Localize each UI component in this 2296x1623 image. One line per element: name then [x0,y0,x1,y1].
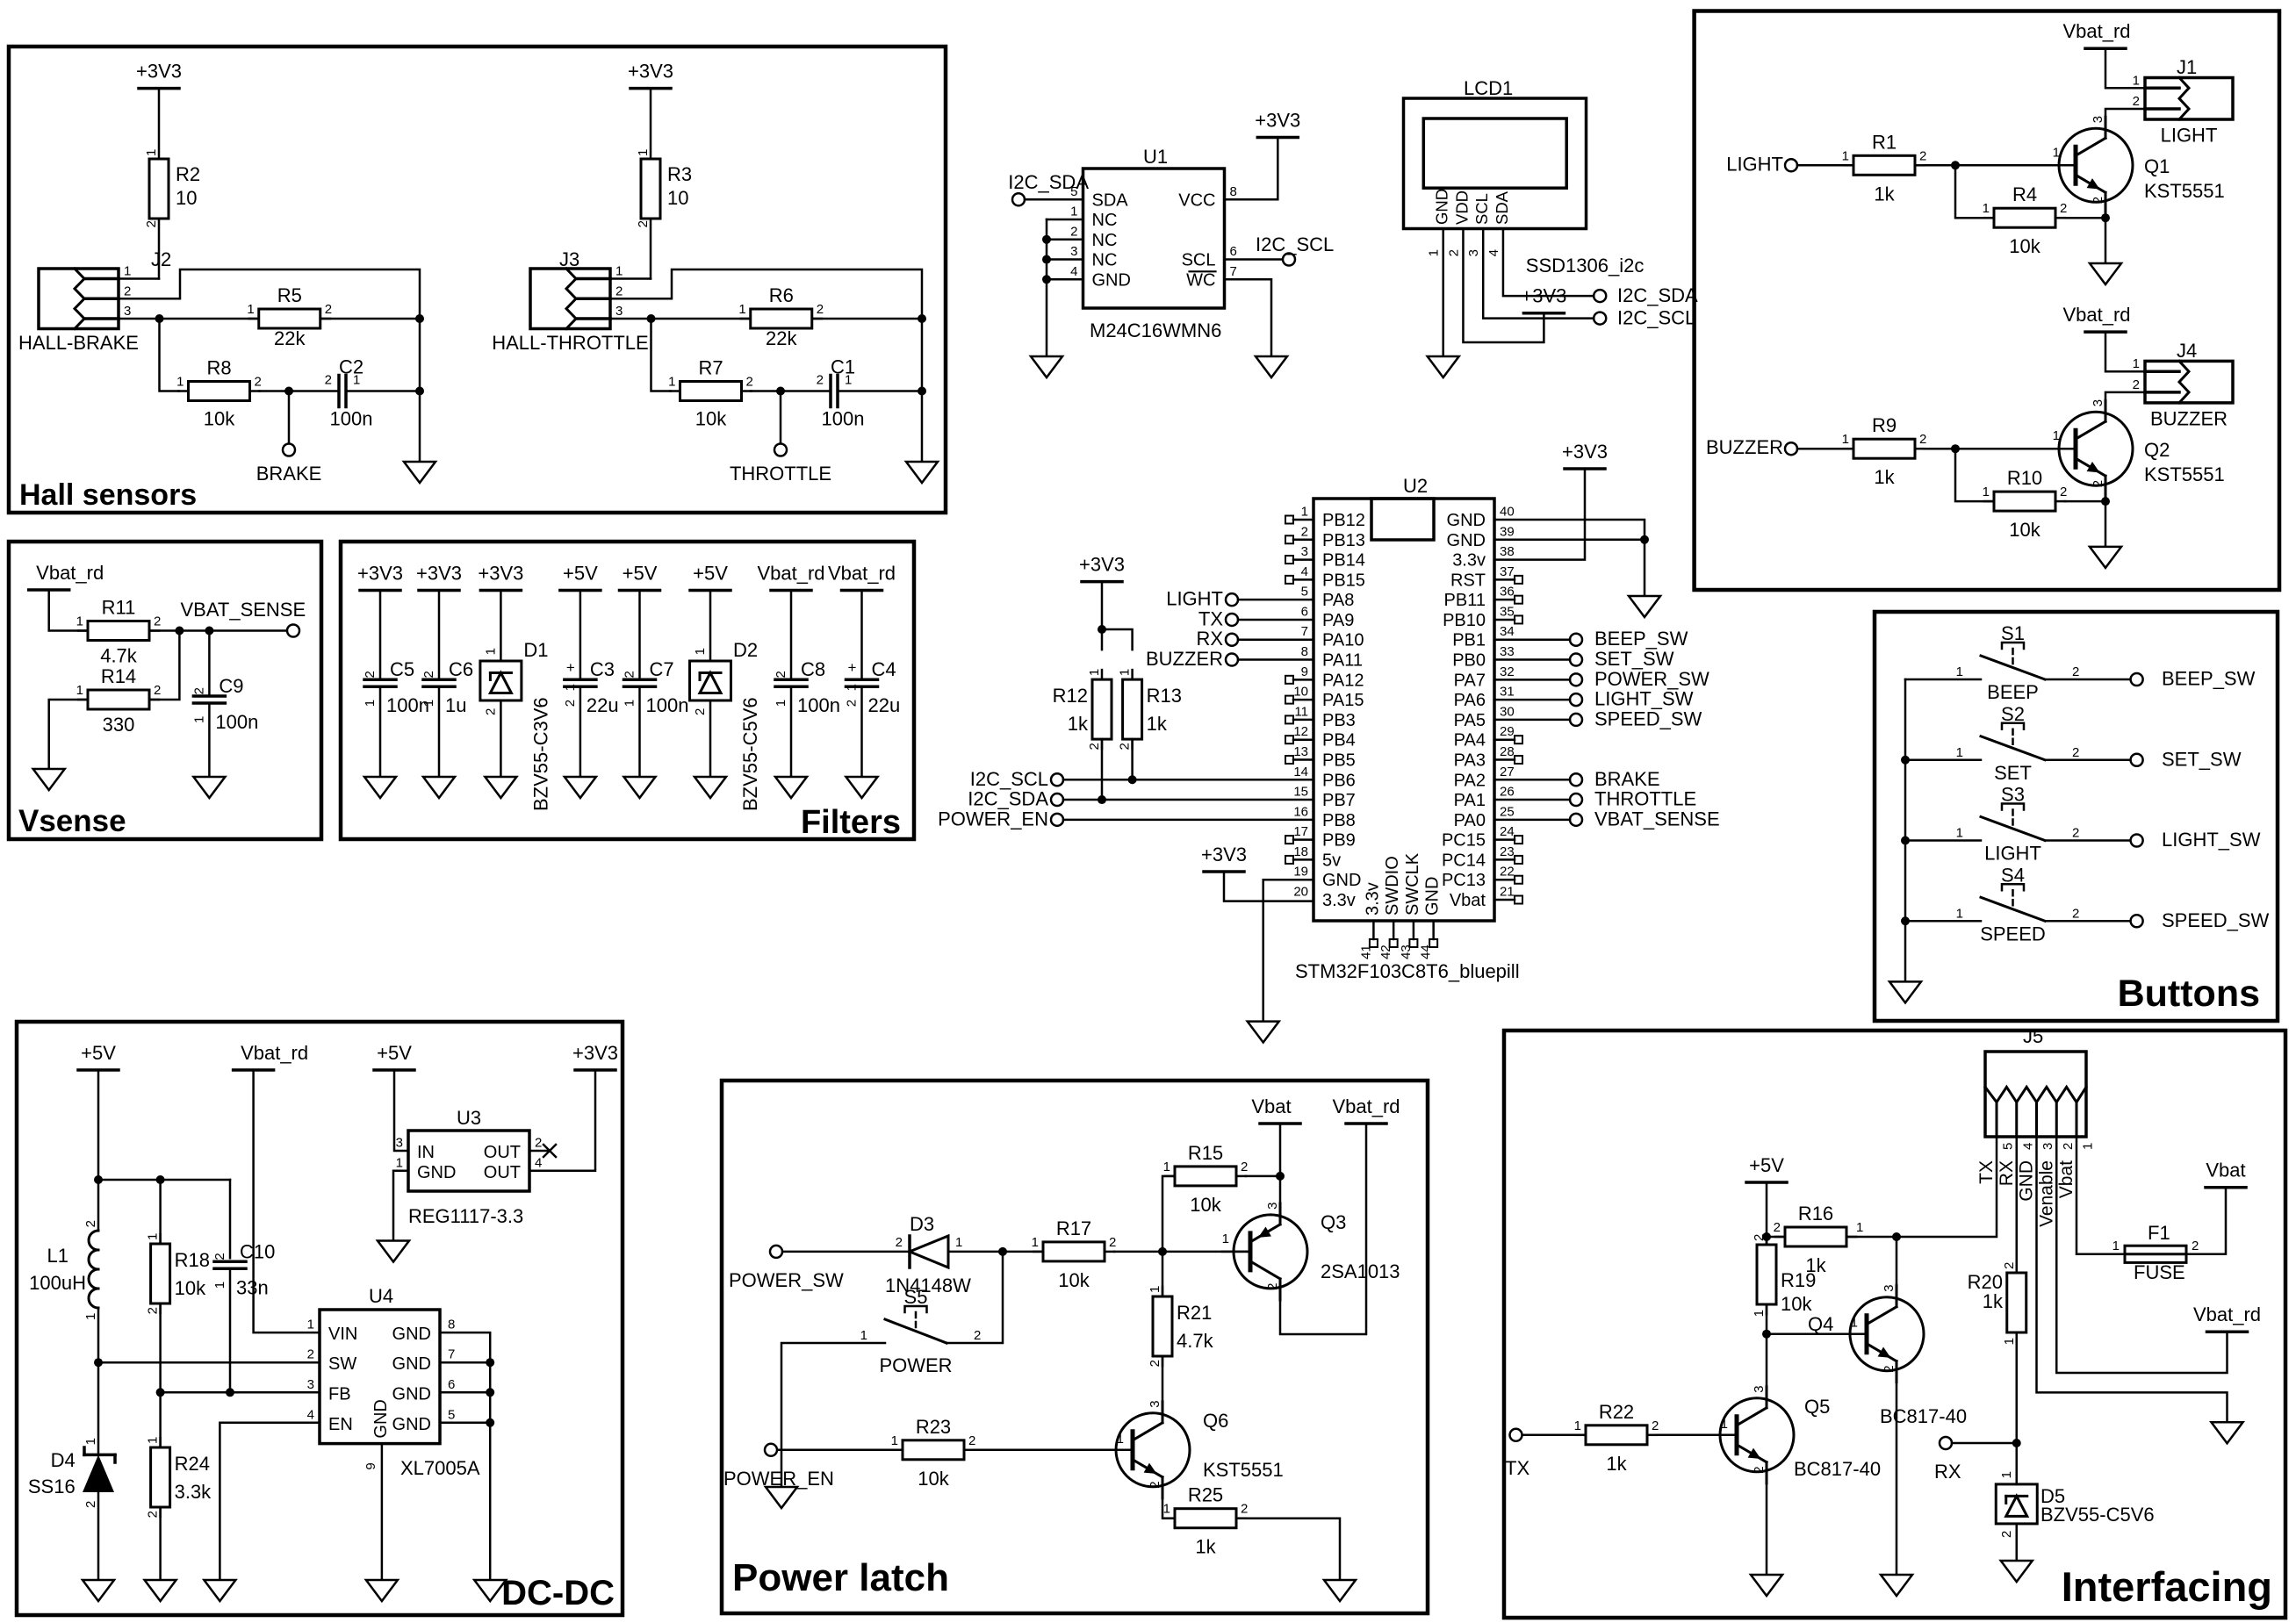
svg-text:PB14: PB14 [1322,551,1365,571]
svg-text:J1: J1 [2177,56,2197,78]
svg-text:SWCLK: SWCLK [1403,852,1422,916]
svg-text:2: 2 [1882,1365,1897,1372]
svg-text:1k: 1k [1068,713,1089,735]
svg-text:10k: 10k [204,408,235,430]
svg-text:3: 3 [2091,399,2105,406]
svg-text:1: 1 [353,373,360,388]
svg-text:1: 1 [738,302,745,317]
svg-text:1k: 1k [1606,1453,1627,1475]
svg-text:POWER_EN: POWER_EN [938,808,1048,829]
svg-text:1: 1 [421,700,436,707]
svg-text:PB7: PB7 [1322,791,1356,810]
svg-text:PA1: PA1 [1454,791,1486,810]
svg-text:VIN: VIN [328,1325,357,1344]
svg-text:41: 41 [1358,944,1373,959]
svg-text:POWER_EN: POWER_EN [723,1468,834,1490]
svg-text:BRAKE: BRAKE [1594,768,1660,790]
svg-text:PA6: PA6 [1454,691,1486,710]
svg-text:100n: 100n [822,408,865,430]
svg-text:R16: R16 [1798,1203,1833,1224]
svg-text:100n: 100n [797,694,840,716]
svg-text:3: 3 [1882,1284,1897,1291]
svg-text:BEEP_SW: BEEP_SW [1594,628,1688,650]
svg-text:3: 3 [124,304,131,319]
svg-text:PC14: PC14 [1442,851,1486,870]
svg-text:J2: J2 [151,248,171,270]
svg-text:+5V: +5V [563,563,598,585]
svg-text:1: 1 [76,683,83,698]
svg-text:PB6: PB6 [1322,771,1356,790]
svg-text:R22: R22 [1599,1401,1634,1423]
svg-text:2: 2 [154,614,161,629]
svg-text:6: 6 [1301,604,1308,619]
svg-text:22k: 22k [274,327,306,349]
svg-text:2: 2 [968,1433,975,1448]
svg-text:35: 35 [1500,604,1515,619]
svg-text:4: 4 [307,1407,314,1422]
svg-text:R1: R1 [1872,131,1897,153]
svg-text:1: 1 [83,1438,98,1445]
svg-text:Vbat_rd: Vbat_rd [36,562,104,584]
svg-text:R5: R5 [277,284,302,306]
svg-text:1: 1 [1117,1432,1124,1447]
svg-text:1: 1 [396,1155,403,1170]
svg-text:SSD1306_i2c: SSD1306_i2c [1526,255,1645,276]
svg-text:C10: C10 [240,1240,275,1262]
svg-text:NC: NC [1092,211,1118,230]
svg-text:3: 3 [396,1136,403,1151]
svg-text:C4: C4 [872,658,896,680]
svg-text:1: 1 [860,1328,867,1343]
svg-text:2: 2 [636,220,651,227]
svg-text:GND: GND [1447,531,1486,550]
svg-text:3: 3 [1301,544,1308,559]
svg-text:D4: D4 [51,1449,76,1471]
svg-text:1: 1 [1842,432,1849,447]
svg-text:3.3v: 3.3v [1452,551,1486,571]
svg-text:POWER: POWER [879,1354,952,1376]
svg-text:C3: C3 [590,658,615,680]
svg-text:FB: FB [328,1384,351,1404]
svg-text:GND: GND [1322,871,1361,890]
svg-text:TX: TX [1976,1160,1997,1184]
svg-text:+3V3: +3V3 [1201,844,1247,865]
svg-text:5: 5 [448,1407,455,1422]
svg-text:SDA: SDA [1493,190,1511,225]
svg-text:7: 7 [1301,624,1308,639]
svg-text:2: 2 [2072,664,2079,679]
svg-text:2: 2 [1070,224,1077,239]
svg-text:2: 2 [2002,1262,2017,1269]
svg-text:100uH: 100uH [29,1272,86,1294]
svg-text:R8: R8 [206,357,231,379]
svg-text:1: 1 [1427,249,1442,256]
svg-text:3: 3 [1265,1203,1280,1210]
svg-text:9: 9 [1301,664,1308,679]
svg-text:R25: R25 [1188,1484,1223,1506]
svg-text:Vbat: Vbat [1450,891,1486,910]
svg-text:23: 23 [1500,844,1515,859]
svg-text:I2C_SDA: I2C_SDA [1008,171,1089,193]
svg-text:+3V3: +3V3 [1562,441,1608,463]
svg-text:PA0: PA0 [1454,811,1486,830]
svg-text:+5V: +5V [81,1042,116,1064]
svg-text:2: 2 [421,671,436,678]
svg-text:GND: GND [417,1163,456,1182]
svg-text:13: 13 [1293,744,1308,759]
svg-text:BEEP_SW: BEEP_SW [2162,668,2256,690]
svg-text:BUZZER: BUZZER [1146,648,1223,670]
svg-text:PB1: PB1 [1452,631,1486,650]
svg-text:SET_SW: SET_SW [2162,748,2242,770]
svg-text:Vbat_rd: Vbat_rd [1332,1095,1400,1117]
svg-text:IN: IN [417,1143,435,1162]
svg-text:2: 2 [817,373,824,388]
svg-text:2: 2 [1919,432,1926,447]
svg-text:+3V3: +3V3 [136,61,182,83]
svg-text:16: 16 [1293,804,1308,819]
svg-text:1: 1 [1163,1502,1170,1517]
svg-text:34: 34 [1500,624,1515,639]
svg-text:43: 43 [1399,944,1414,959]
svg-text:Vbat_rd: Vbat_rd [2062,304,2130,326]
svg-text:2: 2 [2072,826,2079,841]
svg-text:2: 2 [154,683,161,698]
svg-text:2: 2 [1118,743,1133,750]
svg-text:SWDIO: SWDIO [1383,856,1402,916]
svg-text:1: 1 [2002,1338,2017,1345]
svg-text:PC13: PC13 [1442,871,1486,890]
svg-text:2: 2 [325,373,332,388]
svg-text:100n: 100n [215,711,258,733]
svg-text:RX: RX [1934,1461,1961,1483]
svg-text:PB0: PB0 [1452,651,1486,671]
svg-text:+3V3: +3V3 [1079,554,1125,576]
svg-text:S4: S4 [2001,864,2025,886]
svg-text:THROTTLE: THROTTLE [730,463,831,485]
svg-text:3: 3 [615,304,623,319]
svg-text:2: 2 [2192,1239,2199,1253]
svg-text:1: 1 [1851,1316,1858,1331]
svg-text:Filters: Filters [801,804,901,841]
svg-text:U2: U2 [1403,475,1428,497]
svg-text:S5: S5 [904,1286,928,1308]
svg-text:2: 2 [1446,249,1461,256]
svg-text:2SA1013: 2SA1013 [1321,1260,1400,1282]
svg-text:U3: U3 [457,1107,481,1129]
svg-text:2: 2 [1301,524,1308,539]
svg-text:1: 1 [1574,1418,1581,1433]
svg-text:1: 1 [845,373,852,388]
svg-text:NC: NC [1092,231,1118,250]
svg-text:PC15: PC15 [1442,831,1486,851]
svg-text:2: 2 [2061,1143,2076,1150]
svg-text:LIGHT_SW: LIGHT_SW [2162,829,2261,851]
svg-text:2: 2 [896,1235,903,1250]
svg-text:THROTTLE: THROTTLE [1594,788,1696,810]
svg-text:30: 30 [1500,704,1515,719]
svg-text:+: + [566,659,575,676]
svg-text:2: 2 [746,375,753,390]
svg-text:1: 1 [483,648,498,655]
svg-text:PA2: PA2 [1454,771,1486,790]
svg-text:1: 1 [212,1282,227,1289]
svg-text:J5: J5 [2023,1025,2043,1047]
svg-text:NC: NC [1092,251,1118,270]
svg-text:J4: J4 [2177,340,2197,362]
svg-text:BRAKE: BRAKE [256,463,322,485]
svg-text:R9: R9 [1872,414,1897,436]
svg-text:R17: R17 [1056,1217,1091,1239]
svg-text:2: 2 [1752,1466,1767,1473]
svg-text:RX: RX [1997,1160,2017,1186]
svg-text:R3: R3 [667,163,692,185]
svg-text:Buttons: Buttons [2118,973,2260,1015]
svg-text:4: 4 [1301,564,1308,579]
svg-text:1: 1 [2133,73,2140,88]
svg-text:RST: RST [1450,571,1486,590]
svg-text:1: 1 [1956,664,1963,679]
svg-text:10k: 10k [918,1468,949,1490]
svg-text:GND: GND [392,1415,431,1434]
svg-text:2: 2 [483,708,498,715]
svg-text:PA3: PA3 [1454,750,1486,770]
svg-text:GND: GND [1447,511,1486,530]
svg-text:SET_SW: SET_SW [1594,648,1674,670]
svg-text:Venable: Venable [2036,1160,2056,1227]
svg-text:6: 6 [1230,244,1237,259]
svg-text:SPEED_SW: SPEED_SW [1594,707,1702,729]
svg-text:19: 19 [1293,865,1308,880]
svg-text:1: 1 [1856,1220,1863,1235]
svg-text:2: 2 [1148,1481,1162,1488]
svg-text:R23: R23 [916,1416,951,1438]
svg-text:1: 1 [247,302,254,317]
svg-text:+3V3: +3V3 [357,563,403,585]
svg-text:1: 1 [146,1437,161,1444]
svg-text:4: 4 [1070,264,1077,279]
svg-text:10: 10 [667,187,688,209]
svg-text:REG1117-3.3: REG1117-3.3 [408,1205,523,1227]
svg-text:1: 1 [144,149,159,156]
svg-text:R6: R6 [769,284,794,306]
svg-text:9: 9 [363,1462,378,1469]
svg-text:C6: C6 [449,658,473,680]
svg-text:11: 11 [1294,704,1308,719]
svg-text:R7: R7 [698,357,723,379]
svg-text:1: 1 [1721,1417,1728,1432]
svg-text:U4: U4 [369,1285,393,1307]
svg-text:3.3v: 3.3v [1363,882,1382,916]
svg-text:FUSE: FUSE [2134,1261,2185,1283]
svg-text:I2C_SCL: I2C_SCL [970,768,1048,790]
svg-text:4.7k: 4.7k [100,645,138,667]
svg-text:3.3v: 3.3v [1322,891,1356,910]
svg-text:2: 2 [1265,1283,1280,1290]
svg-text:7: 7 [448,1347,455,1362]
svg-text:1: 1 [124,264,131,279]
svg-text:PB4: PB4 [1322,731,1356,750]
svg-text:PA12: PA12 [1322,671,1364,690]
svg-text:10k: 10k [2009,235,2040,257]
svg-text:36: 36 [1500,585,1515,600]
svg-text:R14: R14 [101,665,136,687]
svg-text:2: 2 [1241,1160,1248,1174]
svg-text:R15: R15 [1188,1142,1223,1164]
svg-text:2: 2 [2133,377,2140,392]
svg-text:Vbat: Vbat [2206,1160,2245,1181]
svg-text:1: 1 [1118,669,1133,676]
svg-text:1: 1 [668,375,675,390]
svg-text:10: 10 [176,187,197,209]
svg-text:2: 2 [774,671,788,678]
svg-text:TX: TX [1505,1457,1529,1479]
svg-text:17: 17 [1293,824,1308,839]
svg-text:2: 2 [2072,745,2079,760]
svg-text:HALL-BRAKE: HALL-BRAKE [18,332,139,354]
svg-text:I2C_SCL: I2C_SCL [1617,307,1695,329]
svg-text:2: 2 [2091,480,2105,487]
svg-text:Q3: Q3 [1321,1211,1346,1233]
svg-text:12: 12 [1293,724,1308,739]
svg-text:GND: GND [392,1325,431,1344]
svg-text:PB9: PB9 [1322,831,1356,851]
svg-text:PA10: PA10 [1322,631,1364,650]
svg-text:RX: RX [1196,628,1223,650]
svg-text:4: 4 [1486,249,1501,256]
svg-text:LIGHT: LIGHT [2161,125,2218,147]
svg-text:1: 1 [1301,505,1308,520]
svg-text:1: 1 [1752,1310,1767,1317]
svg-text:1: 1 [563,684,578,691]
svg-text:Q6: Q6 [1203,1410,1228,1432]
svg-text:3: 3 [2040,1143,2055,1150]
svg-text:LCD1: LCD1 [1464,77,1513,99]
svg-text:1k: 1k [1195,1536,1216,1558]
svg-text:Q5: Q5 [1804,1396,1830,1418]
svg-text:2: 2 [2091,197,2105,204]
svg-text:EN: EN [328,1415,353,1434]
svg-text:29: 29 [1500,724,1515,739]
svg-text:2: 2 [1999,1531,2014,1538]
svg-text:R12: R12 [1053,685,1088,707]
svg-text:PA5: PA5 [1454,711,1486,730]
svg-text:Hall sensors: Hall sensors [19,478,197,512]
svg-text:1: 1 [146,1233,161,1240]
svg-text:39: 39 [1500,524,1515,539]
svg-text:22k: 22k [766,327,797,349]
svg-text:2: 2 [623,671,637,678]
svg-text:22: 22 [1500,865,1515,880]
svg-text:WC: WC [1186,270,1215,290]
svg-text:DC-DC: DC-DC [501,1574,615,1612]
svg-text:330: 330 [103,714,135,736]
svg-text:OUT: OUT [484,1163,521,1182]
svg-text:BEEP: BEEP [1987,681,2039,703]
svg-text:2: 2 [83,1501,98,1508]
svg-text:1: 1 [1956,906,1963,921]
svg-text:1: 1 [2133,356,2140,371]
svg-text:GND: GND [1092,270,1131,290]
svg-text:3: 3 [307,1377,314,1392]
svg-text:BZV55-C3V6: BZV55-C3V6 [529,697,551,811]
svg-text:Interfacing: Interfacing [2062,1563,2272,1610]
svg-text:PB12: PB12 [1322,511,1365,530]
svg-text:2: 2 [1652,1418,1659,1433]
svg-text:22u: 22u [587,694,619,716]
svg-text:3: 3 [1466,249,1481,256]
svg-text:4.7k: 4.7k [1177,1330,1214,1352]
svg-text:BUZZER: BUZZER [2150,407,2228,429]
svg-text:2: 2 [1109,1235,1116,1250]
svg-text:PA7: PA7 [1454,671,1486,690]
svg-text:3: 3 [1752,1385,1767,1392]
svg-text:1: 1 [955,1235,962,1250]
svg-text:M24C16WMN6: M24C16WMN6 [1090,320,1221,341]
svg-text:1: 1 [363,700,378,707]
svg-text:2: 2 [2060,201,2067,216]
svg-text:LIGHT: LIGHT [1166,588,1223,610]
svg-text:33: 33 [1500,644,1515,659]
svg-text:1k: 1k [1983,1290,2004,1312]
svg-text:POWER_SW: POWER_SW [729,1269,844,1291]
svg-text:PB10: PB10 [1443,611,1486,630]
svg-text:10k: 10k [2009,519,2040,541]
svg-text:2: 2 [212,1253,227,1260]
svg-text:GND: GND [392,1354,431,1374]
svg-text:1: 1 [1983,201,1990,216]
svg-text:2: 2 [191,687,206,694]
svg-text:1: 1 [83,1313,98,1320]
svg-text:2: 2 [83,1220,98,1227]
svg-text:Vbat_rd: Vbat_rd [2193,1303,2261,1325]
svg-text:+5V: +5V [377,1042,412,1064]
svg-text:PB8: PB8 [1322,811,1356,830]
svg-text:2: 2 [693,708,708,715]
svg-text:POWER_SW: POWER_SW [1594,668,1709,690]
svg-text:Vbat_rd: Vbat_rd [757,563,824,585]
svg-text:2: 2 [2060,485,2067,499]
svg-text:S3: S3 [2001,784,2025,806]
svg-text:F1: F1 [2148,1222,2170,1244]
svg-text:LIGHT: LIGHT [1984,843,2041,865]
svg-text:TX: TX [1198,607,1223,629]
svg-text:44: 44 [1419,944,1434,959]
svg-text:1: 1 [1087,669,1102,676]
svg-text:42: 42 [1378,944,1393,959]
svg-text:5: 5 [2001,1143,2016,1150]
svg-text:I2C_SDA: I2C_SDA [1617,284,1698,306]
svg-text:STM32F103C8T6_bluepill: STM32F103C8T6_bluepill [1295,960,1520,982]
svg-text:1: 1 [1148,1286,1162,1293]
svg-text:Vbat_rd: Vbat_rd [828,563,896,585]
svg-text:PA15: PA15 [1322,691,1364,710]
svg-text:2: 2 [1752,1234,1767,1241]
svg-text:2: 2 [615,284,623,298]
svg-text:2: 2 [124,284,131,298]
svg-text:18: 18 [1293,844,1308,859]
svg-text:8: 8 [1230,184,1237,199]
svg-text:+3V3: +3V3 [572,1042,618,1064]
svg-text:R24: R24 [175,1453,210,1475]
svg-text:D2: D2 [733,639,758,661]
svg-text:SS16: SS16 [28,1476,76,1497]
svg-text:14: 14 [1293,765,1308,779]
svg-text:+3V3: +3V3 [628,61,673,83]
svg-text:SDA: SDA [1092,190,1129,210]
svg-text:GND: GND [1423,877,1443,916]
svg-text:7: 7 [1230,264,1237,279]
